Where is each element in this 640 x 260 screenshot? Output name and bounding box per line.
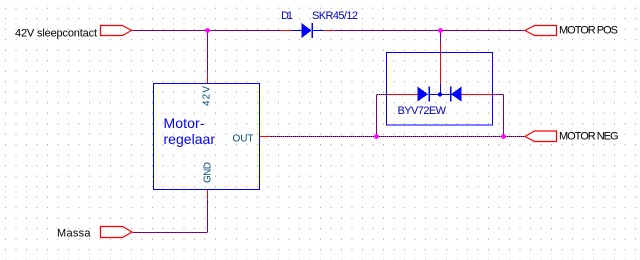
svg-text:OUT: OUT <box>233 134 254 145</box>
svg-text:Massa: Massa <box>57 228 91 240</box>
svg-text:D1: D1 <box>281 10 293 22</box>
svg-text:Motor-: Motor- <box>164 115 205 131</box>
svg-text:regelaar: regelaar <box>164 131 216 147</box>
svg-text:MOTOR POS: MOTOR POS <box>559 25 618 37</box>
svg-text:SKR45/12: SKR45/12 <box>312 10 358 22</box>
svg-text:42V: 42V <box>202 86 213 106</box>
svg-text:BYV72EW: BYV72EW <box>398 105 447 117</box>
svg-text:GND: GND <box>203 162 214 183</box>
svg-text:42V sleepcontact: 42V sleepcontact <box>15 28 97 40</box>
svg-text:MOTOR NEG: MOTOR NEG <box>559 131 619 143</box>
